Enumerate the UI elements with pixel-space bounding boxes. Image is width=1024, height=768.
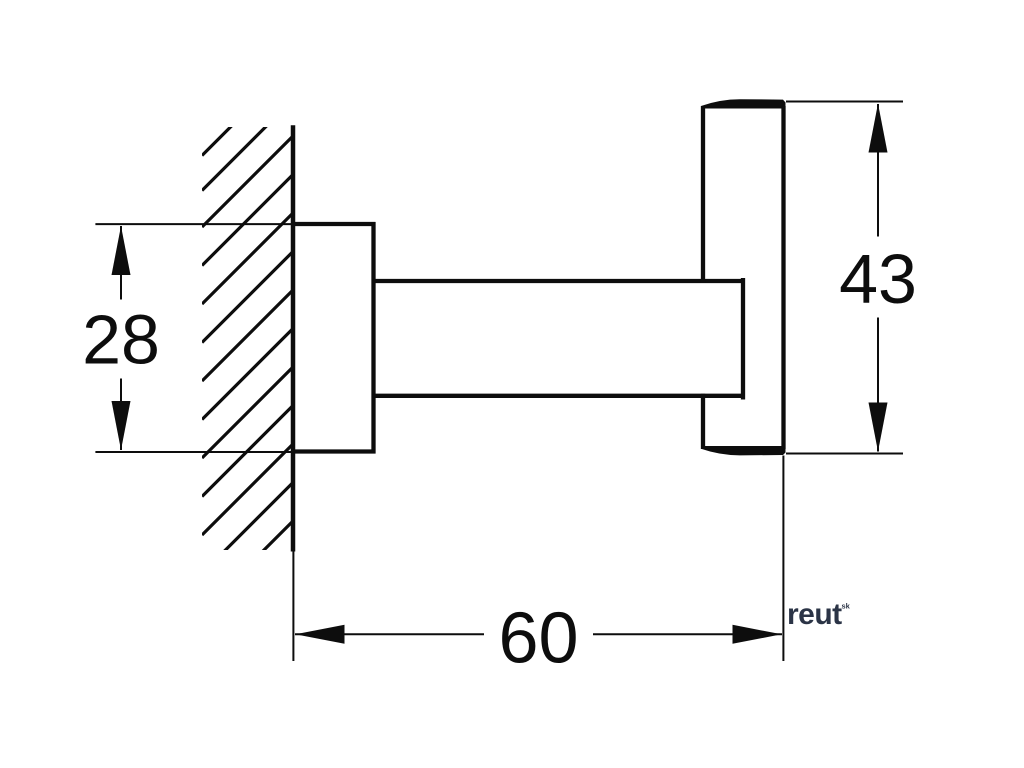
stem (horizontal post) [376, 278, 744, 400]
dimension 43: extension line top [786, 101, 903, 103]
dimension 43: extension line bottom [786, 453, 903, 455]
svg-text:60: 60 [498, 599, 578, 679]
dimension 60: extension line left (wall) [292, 552, 294, 662]
dimension 28: extension line bottom [95, 451, 291, 453]
dimension 28: extension line top [95, 223, 291, 225]
dimension 28: dimension line lower segment [120, 379, 122, 451]
dimension 28: arrow up [112, 226, 131, 275]
svg-text:43: 43 [839, 240, 917, 318]
front plate bottom cap [701, 446, 786, 455]
dimension 43: arrow up [869, 104, 888, 153]
svg-text:28: 28 [82, 300, 160, 378]
dimension 43: dimension line lower segment [877, 318, 879, 452]
dimension 60: arrow right [733, 625, 782, 644]
svg-text:sk: sk [842, 602, 851, 611]
dimension 43: arrow down [869, 403, 888, 452]
dimension 60: arrow left [296, 625, 345, 644]
front plate top cap [701, 99, 786, 108]
dimension 43: dimension line upper segment [877, 104, 879, 237]
front plate (hook face) [703, 106, 784, 449]
dimension 60: dimension line left segment [295, 633, 484, 635]
dimension 60: dimension line right segment [593, 633, 782, 635]
wall hatching [202, 64, 294, 612]
dimension 28: arrow down [112, 401, 131, 450]
svg-text:reut: reut [787, 598, 842, 631]
wall plate (mount) [291, 222, 376, 454]
wall face line [291, 125, 296, 551]
dimension 60: extension line right (plate) [782, 456, 784, 662]
dimension 28: dimension line upper segment [120, 226, 122, 300]
